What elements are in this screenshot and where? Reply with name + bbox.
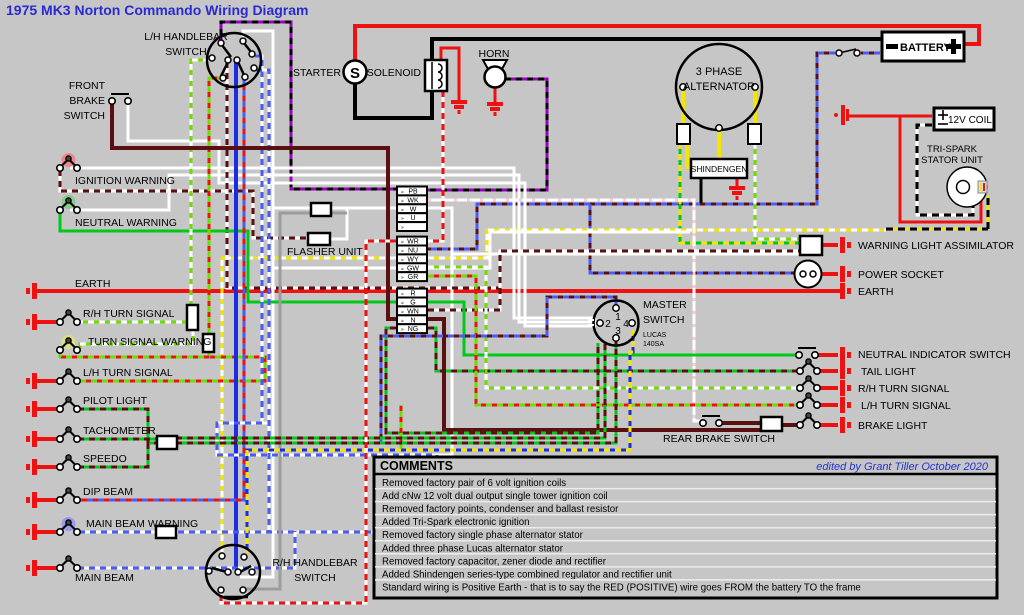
wire green-white RH turn signal bulb link (77, 321, 188, 324)
wire red-white solenoid to WR connector (428, 91, 443, 241)
ground shindengen (736, 178, 739, 186)
wire red LH turn lamp feed (817, 403, 838, 407)
svg-text:REAR BRAKE SWITCH: REAR BRAKE SWITCH (663, 433, 775, 445)
wire brown-green tachometer lead (78, 438, 157, 441)
svg-text:MAIN BEAM: MAIN BEAM (75, 572, 134, 584)
svg-text:TAIL LIGHT: TAIL LIGHT (861, 366, 916, 378)
wire white harness zig to RH switch (273, 232, 690, 268)
svg-text:L/H HANDLEBAR: L/H HANDLEBAR (144, 31, 228, 43)
wire green-yellow connector to assimilator (680, 143, 800, 243)
wire black battery negative to solenoid (432, 39, 884, 60)
wire red pilot light feed (37, 407, 57, 411)
terminal right power socket (840, 266, 851, 282)
wire blue-white LH switch detour to main beam warning (217, 56, 437, 532)
wire purple-black horn to PB connector (428, 79, 547, 190)
power socket (795, 261, 822, 288)
svg-text:SWITCH: SWITCH (64, 110, 105, 122)
svg-text:Removed factory points, conden: Removed factory points, condenser and ba… (382, 504, 619, 515)
wire green-white right connector to assimilator (755, 143, 800, 239)
svg-text:L/H TURN SIGNAL: L/H TURN SIGNAL (861, 400, 951, 412)
svg-text:SPEEDO: SPEEDO (83, 453, 127, 465)
wire white neutral warning to master switch (70, 175, 596, 322)
wire brown-white ignition warning to flasher unit (60, 170, 308, 238)
connector WK (397, 195, 427, 204)
main beam warning connector box (156, 526, 176, 538)
svg-text:WARNING LIGHT ASSIMILATOR: WARNING LIGHT ASSIMILATOR (858, 240, 1014, 252)
wire blue-white main beam branch (78, 531, 295, 568)
connector N (397, 315, 427, 324)
svg-text:Removed factory pair of 6 volt: Removed factory pair of 6 volt ignition … (382, 478, 566, 489)
svg-text:2: 2 (605, 319, 611, 330)
svg-text:3 PHASE: 3 PHASE (696, 66, 742, 78)
wire white rear brake switch white lead (694, 420, 702, 423)
wire brown-green speedo to tach connector (78, 444, 148, 467)
R/H turn signal bulb (62, 314, 76, 320)
wire black-white coil to stator (917, 125, 973, 215)
solenoid (425, 60, 447, 91)
main beam warning bulb (62, 517, 76, 531)
connector GR (397, 272, 427, 281)
wire blue-white main beam warning run (78, 531, 437, 534)
wire brown N connector to rear brake light (428, 319, 763, 430)
wire red main beam warning feed (37, 530, 57, 534)
wire blue-white LH switch to main beam warning (256, 70, 269, 532)
wire gray flasher unit to RH switch (245, 213, 347, 589)
svg-text:NEUTRAL WARNING: NEUTRAL WARNING (75, 217, 177, 229)
wire red speedo feed (37, 465, 57, 469)
svg-text:DIP BEAM: DIP BEAM (83, 486, 133, 498)
ground solenoid (451, 102, 467, 112)
wire brown connector to brake light bulb (781, 423, 800, 427)
wire brown rear brake switch to connector (719, 421, 763, 425)
12V coil (934, 108, 994, 130)
svg-text:TURN SIGNAL WARNING: TURN SIGNAL WARNING (88, 336, 211, 348)
comments table (374, 457, 997, 598)
wire brown-green tach to master switch (176, 343, 605, 438)
wire blue LH switch to RH switch (234, 62, 238, 568)
wire red dip beam feed (37, 498, 57, 502)
front brake switch contacts (111, 93, 129, 95)
turn signal connector box2 (203, 334, 214, 352)
rear brake connector box (761, 417, 782, 431)
warning light assimilator box (800, 236, 822, 255)
tri-spark stator unit (947, 167, 987, 207)
ground 12V coil frame tap (834, 105, 849, 125)
wire red L/H turn signal feed (37, 379, 57, 383)
wire yellow-white WY connector to stator harness (428, 230, 886, 258)
connector W (397, 204, 427, 213)
svg-text:SWITCH: SWITCH (643, 314, 684, 326)
svg-text:BRAKE: BRAKE (69, 95, 105, 107)
svg-text:BRAKE LIGHT: BRAKE LIGHT (858, 420, 928, 432)
svg-text:NG: NG (408, 326, 419, 333)
L/H turn signal bulb (62, 373, 76, 379)
wire red tachometer feed (37, 437, 57, 441)
wire green-red GR connector to LH turn signal lamp (428, 276, 800, 405)
battery isolation switch (839, 49, 856, 53)
neutral indicator switch contacts (798, 347, 816, 349)
svg-text:R/H HANDLEBAR: R/H HANDLEBAR (272, 557, 358, 569)
wire white-pink WK connector to rear brake switch (428, 200, 702, 421)
wire brown-blue battery to harness (861, 52, 880, 55)
wire brown-white WN connector to assimilator (428, 251, 800, 310)
3 phase alternator (676, 44, 762, 130)
terminal left speedo (26, 459, 37, 475)
wire white front brake to master switch (128, 101, 596, 326)
svg-text:SOLENOID: SOLENOID (367, 67, 422, 79)
battery (882, 32, 964, 61)
svg-text:12V COIL: 12V COIL (948, 115, 992, 126)
wire black shindengen to battery line (700, 178, 703, 203)
wire white drop to flasher unit (330, 208, 347, 239)
pilot light bulb (62, 401, 76, 407)
terminal right neutral ind (840, 347, 851, 363)
svg-text:Standard wiring is Positive Ea: Standard wiring is Positive Earth - that… (382, 582, 861, 593)
svg-text:edited by Grant Tiller October: edited by Grant Tiller October 2020 (816, 461, 989, 473)
wire R red earth line (37, 289, 845, 293)
terminal left R/H turn (26, 314, 37, 330)
alternator connector right (748, 124, 761, 144)
svg-text:S: S (350, 65, 360, 82)
terminal left main (26, 560, 37, 576)
R/H handlebar switch (206, 545, 260, 599)
svg-text:Added three phase Lucas altern: Added three phase Lucas alternator stato… (382, 543, 564, 554)
svg-text:3: 3 (615, 326, 621, 337)
wire black-yellow stator to harness (987, 196, 990, 229)
neutral warning bulb (62, 195, 76, 209)
turn signal connector box1 (187, 305, 198, 330)
svg-text:MAIN BEAM WARNING: MAIN BEAM WARNING (86, 518, 198, 530)
svg-text:SWITCH: SWITCH (165, 46, 206, 58)
L/H handlebar switch (207, 33, 261, 87)
shindengen regulator (691, 159, 747, 178)
svg-text:IGNITION WARNING: IGNITION WARNING (75, 175, 175, 187)
svg-text:»: » (401, 327, 404, 333)
R/H turn signal lamp (802, 380, 816, 386)
wire yellow alternator left lead (681, 90, 685, 125)
master switch (594, 301, 639, 346)
wire yellow alternator right lead (753, 90, 757, 125)
connector PB (397, 187, 427, 196)
svg-text:Added Tri-Spark electronic ign: Added Tri-Spark electronic ignition (382, 517, 530, 528)
wire brown-blue battery switch to NU connector (428, 53, 835, 249)
wire red coil feed from frame (849, 115, 932, 118)
wire red tail light feed (817, 369, 838, 373)
wire red-green turn signal warning branch (60, 352, 209, 357)
terminal right R/H turn (840, 380, 851, 396)
terminal right tail (840, 363, 851, 379)
wire green neutral warning to G connector (60, 212, 396, 302)
terminal left main warn (26, 524, 37, 540)
svg-text:BATTERY: BATTERY (900, 42, 951, 54)
terminal left L/H turn (26, 373, 37, 389)
connector U (397, 213, 427, 222)
starter motor (344, 61, 367, 84)
svg-text:MASTER: MASTER (643, 299, 687, 311)
connector GW (397, 263, 427, 272)
svg-text:1975 MK3 Norton Commando Wirin: 1975 MK3 Norton Commando Wiring Diagram (6, 2, 308, 18)
svg-text:4: 4 (623, 319, 629, 330)
svg-text:POWER SOCKET: POWER SOCKET (858, 269, 944, 281)
svg-text:»: » (401, 275, 404, 281)
horn (483, 60, 507, 69)
main beam bulb (62, 560, 76, 566)
connector G (397, 298, 427, 307)
wire red brake light feed (817, 423, 838, 427)
connector WR (397, 237, 427, 246)
svg-text:GR: GR (408, 274, 419, 281)
connector WN (397, 306, 427, 315)
wire brown-blue tee to power socket (590, 204, 796, 273)
wire red-green connector to LH turn signal bulb (78, 352, 265, 381)
svg-text:ALTERNATOR: ALTERNATOR (683, 81, 755, 93)
wire green-white LH switch to turn signal connector (191, 60, 209, 305)
wire red-green LH switch to connector (209, 78, 223, 334)
terminal right L/H turn (840, 397, 851, 413)
svg-text:TACHOMETER: TACHOMETER (83, 425, 156, 437)
terminal left pilot (26, 401, 37, 417)
svg-text:PILOT LIGHT: PILOT LIGHT (83, 395, 148, 407)
wire red solenoid to ground (441, 48, 459, 100)
terminal right assimilator (840, 237, 851, 253)
svg-text:NEUTRAL INDICATOR SWITCH: NEUTRAL INDICATOR SWITCH (858, 349, 1011, 361)
wire brown-green NG connector to master switch (386, 328, 598, 433)
connector WY (397, 254, 427, 263)
svg-text:»: » (401, 225, 404, 231)
svg-text:SHINDENGEN: SHINDENGEN (691, 164, 748, 174)
wire red main beam feed (37, 566, 57, 570)
connector NU (397, 246, 427, 255)
ground horn (487, 104, 503, 114)
wire white ignition warning to master switch (70, 168, 596, 318)
tachometer bulb (62, 431, 76, 437)
wire yellow connector to shindengen (687, 143, 692, 167)
tachometer connector box (157, 436, 177, 449)
svg-text:R/H TURN SIGNAL: R/H TURN SIGNAL (83, 308, 175, 320)
alternator connector left (677, 124, 690, 144)
wire brown front brake switch to N connector (112, 101, 396, 319)
wire black solenoid to starter (355, 83, 432, 118)
svg-text:SWITCH: SWITCH (294, 572, 335, 584)
wire brown-blue bundle to master pin3 (176, 341, 616, 443)
wire red horn to ground (494, 86, 497, 102)
speedo bulb (62, 459, 76, 465)
wire purple-black LH switch to PB connector (221, 22, 396, 189)
wire red-white WR connector to RH switch (221, 241, 396, 603)
flasher unit box (308, 233, 330, 245)
wire brown-blue master pin1 loop (381, 297, 616, 443)
wire red coil to stator unit (900, 116, 981, 222)
wire white LH switch to RH switch (240, 31, 273, 577)
wire yellow-white WY connector to RH switch (222, 258, 396, 553)
svg-text:FRONT: FRONT (69, 80, 106, 92)
wire white W connector to assimilator (428, 208, 800, 254)
wire green G connector to neutral indicator switch (428, 302, 797, 355)
wire blue-yellow master pin4 to RH switch (247, 330, 633, 553)
wire green-white connector to RH turn signal bulb (80, 330, 193, 350)
svg-text:LUCAS: LUCAS (643, 332, 667, 339)
wire red neutral indicator feed (815, 353, 838, 357)
svg-text:EARTH: EARTH (75, 278, 110, 290)
rear brake switch contacts (702, 415, 720, 417)
svg-text:1: 1 (615, 312, 621, 323)
svg-text:COMMENTS: COMMENTS (380, 459, 453, 473)
tail light bulb (802, 363, 816, 369)
flasher connector box (311, 203, 331, 216)
wire green-red RH switch to LH turn lamp tee (400, 405, 403, 450)
ignition warning bulb (62, 153, 76, 167)
wire brown-green NG connector to tail light (428, 328, 800, 371)
wire red-blue LH switch to dip beam (78, 79, 244, 500)
svg-text:EARTH: EARTH (858, 286, 893, 298)
terminal right brake (840, 417, 851, 433)
wire brown-green pilot light to tach connector (78, 409, 157, 443)
svg-text:Added Shindengen series-type c: Added Shindengen series-type combined re… (382, 569, 672, 580)
wire red RH turn lamp feed (817, 386, 838, 390)
terminal left tach (26, 431, 37, 447)
wire red assimilator feed (822, 243, 838, 247)
svg-text:Removed factory single phase a: Removed factory single phase alternator … (382, 530, 584, 541)
wire white W connector detour (217, 254, 452, 455)
wire red R/H turn signal feed (37, 320, 57, 324)
terminal left earth (26, 283, 37, 299)
svg-text:Add cNw 12 volt dual output si: Add cNw 12 volt dual output single tower… (382, 491, 608, 502)
wire red battery positive to starter (355, 26, 979, 63)
svg-text:Removed factory capacitor, zen: Removed factory capacitor, zener diode a… (382, 556, 607, 567)
svg-text:FLASHER UNIT: FLASHER UNIT (287, 246, 363, 258)
svg-text:TRI-SPARK: TRI-SPARK (927, 144, 978, 155)
terminal right earth (840, 283, 851, 299)
wire brown-white LH switch branch (227, 62, 500, 288)
wire green-white GW connector to RH turn signal lamp (428, 267, 800, 388)
svg-text:HORN: HORN (479, 48, 510, 60)
wire yellow alternator centre lead (717, 131, 721, 160)
brake light bulb (802, 417, 816, 423)
wire red power socket feed (822, 272, 838, 276)
svg-text:R/H TURN SIGNAL: R/H TURN SIGNAL (858, 383, 950, 395)
connector R (397, 289, 427, 298)
svg-text:140SA: 140SA (643, 341, 664, 348)
svg-text:L/H TURN SIGNAL: L/H TURN SIGNAL (83, 367, 173, 379)
wire white flasher line to W connector (273, 207, 396, 210)
dip beam bulb (62, 492, 76, 498)
L/H turn signal lamp (802, 397, 816, 403)
connector NG (397, 324, 427, 333)
svg-text:STARTER: STARTER (293, 67, 341, 79)
terminal left dip (26, 492, 37, 508)
svg-text:STATOR UNIT: STATOR UNIT (921, 155, 983, 166)
wire black-yellow stator harness run (886, 228, 988, 231)
connector blank (397, 222, 427, 231)
turn signal warning bulb (62, 335, 76, 349)
